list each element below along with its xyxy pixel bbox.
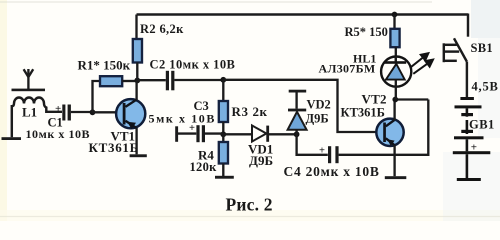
wire R1 left riser bbox=[93, 81, 101, 112]
svg-text:VT2: VT2 bbox=[362, 92, 387, 107]
wire node B to C2 bbox=[137, 79, 166, 81]
wire VT2 collector up bbox=[393, 100, 395, 121]
ground under L1 bbox=[2, 137, 22, 140]
wire node A to VT1 base bbox=[93, 111, 117, 113]
node C (C2/R3/VT2 base wire) bbox=[220, 77, 226, 83]
svg-text:R2 6,2к: R2 6,2к bbox=[140, 22, 184, 36]
node E (VD1/VD2/C4) bbox=[294, 131, 300, 137]
wire C3 to node D bbox=[205, 132, 223, 134]
node F (HL1/VT2 collector) bbox=[392, 97, 398, 103]
capacitor C2 bbox=[166, 71, 175, 91]
wire node D to VD1 bbox=[223, 133, 252, 135]
wire C4 to VT2 collector riser bbox=[339, 100, 429, 155]
svg-text:КТ361Б: КТ361Б bbox=[341, 105, 385, 119]
wire C3 left bbox=[178, 132, 196, 134]
transistor VT2 bbox=[376, 119, 403, 146]
svg-text:+: + bbox=[319, 145, 325, 156]
svg-text:Д9Б: Д9Б bbox=[249, 153, 273, 168]
node A (C1/R1/VT1 base) bbox=[90, 109, 96, 115]
common-rail end bar C3 left bbox=[175, 126, 178, 142]
svg-text:C2 10мк x 10В: C2 10мк x 10В bbox=[150, 58, 236, 72]
battery GB1 bbox=[453, 97, 491, 181]
svg-text:КТ361Б: КТ361Б bbox=[89, 140, 139, 155]
wire VD1 to node E bbox=[269, 133, 297, 135]
svg-text:R5* 150: R5* 150 bbox=[345, 25, 388, 39]
wire VT1 emitter up to node B bbox=[135, 80, 137, 99]
wire collector node to riser bbox=[396, 98, 429, 100]
wire SB1 to battery bbox=[466, 62, 468, 100]
node D (C3/R3/R4/VD1) bbox=[220, 131, 226, 137]
capacitor C4 bbox=[328, 146, 339, 163]
resistor R1 bbox=[100, 76, 122, 86]
switch SB1 bbox=[444, 38, 467, 62]
LED HL1 bbox=[381, 57, 411, 100]
wire R5 to HL1 bbox=[395, 47, 397, 62]
svg-text:5мк x 10В: 5мк x 10В bbox=[149, 112, 217, 126]
svg-text:Д9Б: Д9Б bbox=[306, 112, 329, 126]
svg-text:Рис. 2: Рис. 2 bbox=[226, 195, 273, 215]
wire R2 bottom to node B bbox=[136, 63, 138, 81]
svg-text:R3 2к: R3 2к bbox=[232, 104, 268, 119]
light arrows HL1 bbox=[411, 53, 433, 74]
svg-text:VD2: VD2 bbox=[307, 98, 331, 112]
svg-text:R1* 150к: R1* 150к bbox=[78, 58, 131, 73]
svg-text:GB1: GB1 bbox=[469, 118, 495, 132]
resistor R3 bbox=[219, 101, 228, 122]
antenna WA bbox=[24, 69, 34, 90]
wire node E down to C4 bbox=[297, 134, 328, 155]
svg-text:+: + bbox=[471, 142, 477, 154]
wire R1 to node B bbox=[122, 80, 137, 82]
ferrite rod bar bbox=[12, 89, 46, 92]
wire VT2 emitter down bbox=[393, 145, 395, 176]
diode VD1 bbox=[252, 126, 269, 142]
resistor R4 bbox=[219, 142, 228, 164]
wire C2 to node C bbox=[174, 79, 223, 81]
node B (R1/R2/C2/VT1 emitter) bbox=[134, 78, 140, 84]
wire node C to VT2 base bbox=[223, 80, 376, 132]
capacitor C1 bbox=[62, 105, 71, 121]
capacitor C3 bbox=[196, 125, 205, 142]
svg-text:С4 20мк x 10В: С4 20мк x 10В bbox=[284, 164, 380, 179]
svg-text:120к: 120к bbox=[190, 160, 218, 174]
wire top rail right corner down to SB1 bbox=[467, 14, 469, 37]
ground under VT2 bbox=[385, 176, 407, 179]
svg-text:SB1: SB1 bbox=[471, 41, 493, 55]
ground under R4 bbox=[215, 176, 234, 179]
wire R3 to node D bbox=[222, 122, 224, 135]
ground under VT1 bbox=[130, 154, 147, 157]
node G (top rail/R5) bbox=[392, 12, 398, 18]
inductor L1 bbox=[12, 98, 62, 138]
wire node D down to R4 bbox=[222, 134, 224, 142]
wire VT1 collector down bbox=[135, 128, 137, 154]
svg-text:+: + bbox=[55, 103, 61, 115]
svg-text:4,5В: 4,5В bbox=[472, 79, 499, 93]
svg-text:АЛ307БМ: АЛ307БМ bbox=[319, 62, 376, 76]
wire C1 to node A bbox=[71, 111, 91, 113]
resistor R2 bbox=[133, 39, 142, 63]
top supply rail bbox=[137, 13, 469, 15]
transistor VT1 bbox=[116, 99, 145, 129]
wire node C down to R3 bbox=[222, 80, 224, 101]
wire R4 to ground bbox=[222, 164, 224, 177]
wire R2 top from supply rail bbox=[135, 15, 137, 40]
svg-text:L1: L1 bbox=[22, 105, 37, 120]
common-rail end bar above VD2 bbox=[289, 90, 307, 93]
resistor R5 bbox=[390, 29, 399, 47]
diode VD2 bbox=[288, 93, 307, 135]
wire R5 top bbox=[393, 15, 395, 29]
svg-text:10мк x 10В: 10мк x 10В bbox=[26, 127, 91, 141]
